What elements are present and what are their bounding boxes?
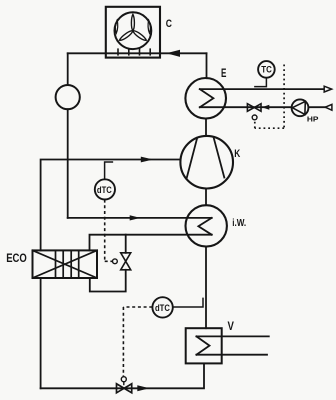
evaporator E circle (185, 78, 226, 119)
fan blades (3-petal propeller) (120, 14, 147, 40)
wire: i.W. bottom line to ECO (y=234.7) (90, 235, 212, 251)
HP pump triangle (292, 101, 305, 114)
open triangle arrow at right end (pointing left) (325, 104, 332, 110)
dashed control line dTC lower to suction valve (123, 307, 152, 377)
arrow into condenser C (filled, pointing left) (166, 50, 180, 57)
E internal chevron (200, 89, 214, 107)
svg-text:i.W.: i.W. (232, 218, 246, 229)
expansion valve actuator circle (113, 259, 118, 264)
svg-text:K: K (234, 148, 241, 160)
instrument TC circle (258, 61, 275, 78)
dTC upper sensor stub (105, 162, 113, 179)
fan coil ticks on bottom line (118, 49, 150, 55)
arrow right (open) at end of E outlet (324, 86, 331, 92)
dashed control line dTC to economizer valve (105, 200, 113, 262)
wire: branch from i.W. line through expansion valve to ECO (90, 235, 126, 292)
K internal lines (187, 138, 225, 179)
vessel V rectangle (186, 328, 222, 363)
TC sensor stub (255, 78, 267, 87)
economizer ECO rectangle (33, 250, 98, 278)
wire: V bottom down and bottom return line (41, 363, 204, 388)
wire: E top outlet line with arrow (y=89.1) (200, 88, 324, 90)
suction valve on bottom line (117, 384, 132, 393)
pump HP circle (292, 99, 309, 116)
svg-text:dTC: dTC (97, 185, 112, 195)
arrow on bottom line (filled, pointing right) (137, 385, 149, 391)
arrow on E lower line (filled, pointing left) (262, 105, 270, 110)
wire: E top to corner and down (hot gas from E to C) (206, 53, 208, 78)
arrow on i.W. inlet line (filled, pointing right) (130, 215, 141, 220)
svg-text:V: V (228, 321, 235, 333)
suction valve actuator (123, 382, 125, 385)
wire: E bottom to K top (205, 119, 207, 137)
wire: V top secondary line (y=336.4) (196, 335, 268, 337)
svg-text:TC: TC (261, 65, 272, 75)
valve on E lower line (247, 104, 261, 112)
svg-text:ECO: ECO (6, 251, 27, 265)
wire: HP suction line from right (308, 106, 325, 108)
economizer expansion valve (vertical) (121, 253, 131, 270)
ECO internal cross and bars (33, 250, 98, 278)
wire: E lower line to valve and HP (y=107.2) (200, 106, 292, 108)
svg-text:C: C (166, 18, 172, 30)
i.W. internal chevron (198, 218, 211, 235)
wire: left column top (C to receiver) (67, 53, 69, 85)
dotted control line TC to valve (255, 65, 284, 129)
wire: i.W. bottom down to vessel V (205, 247, 207, 329)
svg-text:HP: HP (307, 115, 319, 124)
fan circle (114, 12, 151, 49)
wire: economizer vapor injection line to K (41, 160, 180, 251)
compressor K circle (180, 136, 233, 189)
wire: ECO bottom-left down to bottom line (40, 278, 42, 388)
svg-text:dTC: dTC (155, 303, 170, 313)
wire: condenser outlet line under fan box (y=53.3) (68, 52, 207, 54)
wire: V bottom secondary line (y=354.7) (196, 354, 267, 356)
fan side blade arcs (115, 20, 150, 33)
instrument dTC lower circle (152, 297, 172, 317)
receiver circle (56, 85, 80, 109)
wire: left column (receiver down to i.W. inlet) (67, 109, 69, 218)
valve actuator circle (252, 115, 257, 120)
V internal chevron (196, 336, 209, 354)
instrument dTC upper circle (95, 179, 115, 199)
arrow on injection line (filled, pointing right) (141, 157, 153, 163)
svg-text:E: E (221, 66, 226, 80)
wire: i.W. top inlet line (y=217.9) (68, 217, 212, 219)
condenser fan unit C: box (106, 7, 160, 58)
dTC lower sensor stub (173, 298, 203, 307)
wire: K bottom to i.W. top (205, 189, 207, 206)
internal heat exchanger i.W. circle (186, 205, 227, 246)
